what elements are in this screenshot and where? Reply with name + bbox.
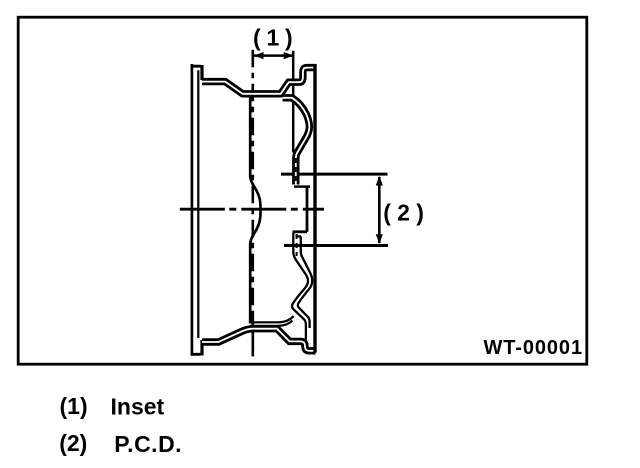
vertical centerline solid lower segment <box>252 315 255 356</box>
left rim flange outer line <box>191 64 194 356</box>
svg-text:(2): (2) <box>59 430 87 456</box>
inboard rim flange vertical <box>313 64 316 353</box>
dimension (2) vertical line <box>378 177 381 243</box>
dimension (2) bottom arrowhead <box>376 234 383 244</box>
svg-text:WT-00001: WT-00001 <box>484 337 583 359</box>
svg-text:(1): (1) <box>60 393 88 419</box>
disc lower tail line B <box>250 321 292 326</box>
dimension (1) line <box>254 54 293 57</box>
stud boss bottom edge <box>293 230 308 233</box>
svg-text:Inset: Inset <box>111 394 165 420</box>
vertical centerline of rim (dash-dot) <box>252 50 255 357</box>
svg-text:P.C.D.: P.C.D. <box>114 431 182 457</box>
rim profile lower half (bead seat, well, step, inboard hook) <box>202 329 316 351</box>
stud boss top edge <box>294 185 310 188</box>
P.C.D. upper line <box>281 173 388 176</box>
figure frame <box>18 17 587 364</box>
stud hole hidden line (lower) <box>296 234 298 256</box>
stud boss face <box>306 187 309 232</box>
dimension (1) right arrowhead <box>284 52 294 59</box>
disc lower outer line: pad to rim dive and arc back <box>292 233 308 340</box>
stud boss lower step edge <box>296 235 302 237</box>
disc lower inner line <box>298 236 312 328</box>
left rim flange bottom cap <box>191 353 201 356</box>
P.C.D. lower line <box>284 244 388 247</box>
hub dome / center hole outline <box>250 97 260 324</box>
rim profile upper half (bead seat, well, hump step, inboard hook) <box>202 68 315 94</box>
stud hole hidden line (upper) <box>295 158 297 184</box>
left rim flange inner line <box>197 70 199 338</box>
svg-text:(1): (1) <box>253 25 299 51</box>
dimension (1) extension line (mounting face) <box>292 51 295 153</box>
disc upper: from well to mounting pad <box>283 98 310 185</box>
horizontal centerline (wheel axis, dash-dot) <box>180 208 324 211</box>
left flange top corner <box>200 65 203 80</box>
left rim flange top cap <box>191 65 201 68</box>
left flange bottom corner <box>200 340 203 356</box>
svg-text:(2): (2) <box>383 199 430 225</box>
dimension (2) top arrowhead <box>376 176 383 186</box>
disc lower tail line A <box>250 316 294 322</box>
dimension (1) left arrowhead <box>254 52 264 59</box>
